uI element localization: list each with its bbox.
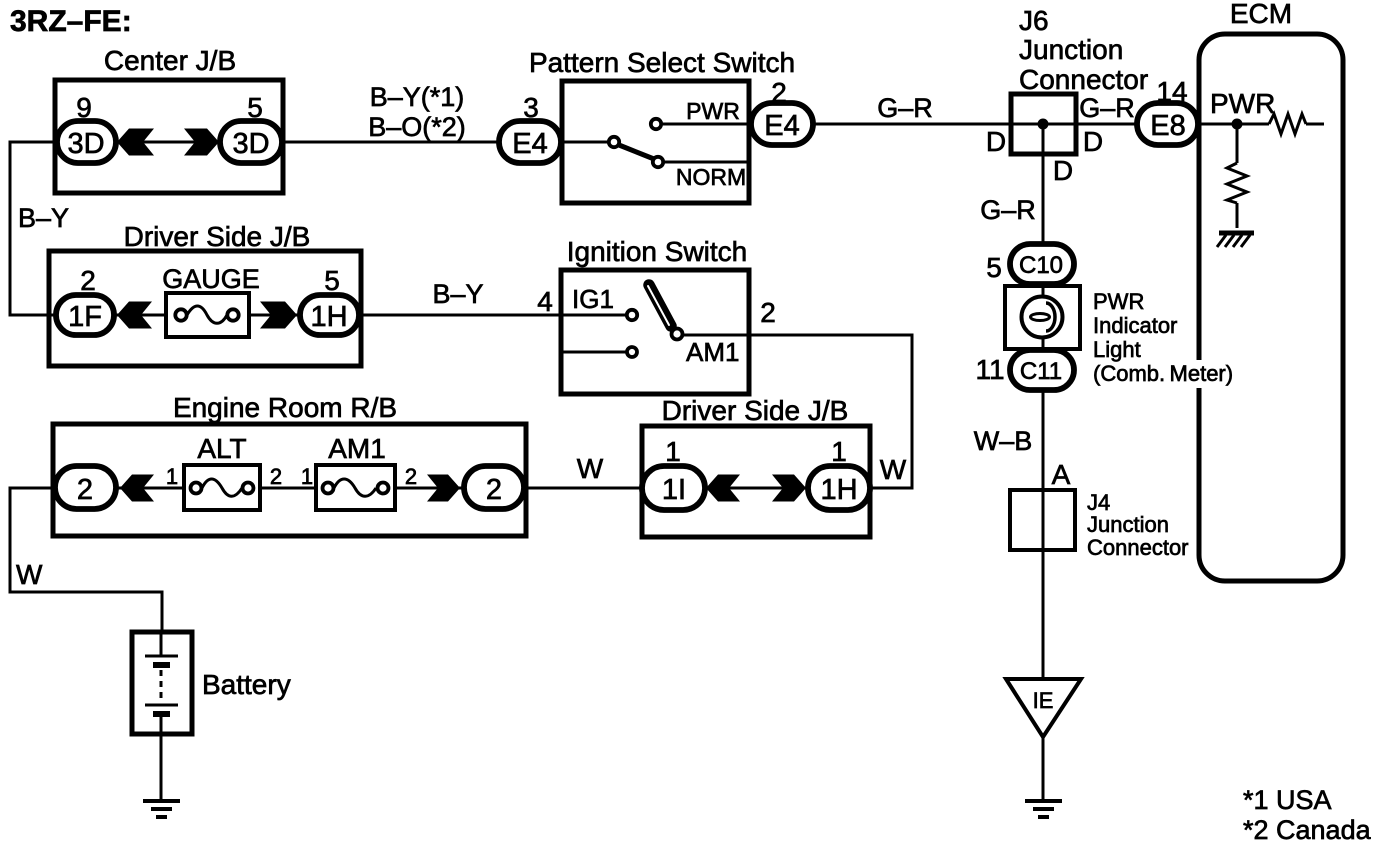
svg-text:1: 1 bbox=[301, 464, 313, 489]
svg-text:J6: J6 bbox=[1019, 5, 1049, 36]
svg-text:A: A bbox=[1052, 459, 1071, 490]
svg-text:9: 9 bbox=[76, 92, 92, 123]
svg-text:W: W bbox=[577, 453, 604, 484]
svg-text:G–R: G–R bbox=[980, 195, 1036, 225]
svg-text:1: 1 bbox=[665, 436, 681, 467]
svg-text:PWR: PWR bbox=[1210, 88, 1275, 119]
svg-text:G–R: G–R bbox=[1079, 93, 1135, 123]
svg-text:B–Y: B–Y bbox=[18, 203, 69, 233]
svg-text:IE: IE bbox=[1033, 688, 1054, 713]
svg-text:NORM: NORM bbox=[676, 164, 746, 190]
svg-text:1F: 1F bbox=[68, 301, 102, 333]
svg-text:Ignition Switch: Ignition Switch bbox=[567, 236, 748, 267]
svg-text:Driver Side J/B: Driver Side J/B bbox=[124, 221, 311, 252]
svg-text:1: 1 bbox=[166, 464, 178, 489]
svg-text:C10: C10 bbox=[1019, 252, 1063, 279]
svg-text:3: 3 bbox=[523, 92, 539, 123]
svg-text:3D: 3D bbox=[232, 128, 269, 160]
svg-text:Engine Room R/B: Engine Room R/B bbox=[173, 392, 397, 423]
svg-text:5: 5 bbox=[247, 92, 263, 123]
svg-text:Connector: Connector bbox=[1087, 535, 1189, 560]
svg-text:2: 2 bbox=[270, 464, 282, 489]
svg-text:G–R: G–R bbox=[877, 93, 933, 123]
svg-text:GAUGE: GAUGE bbox=[162, 264, 260, 294]
svg-text:2: 2 bbox=[77, 474, 93, 506]
svg-text:PWR: PWR bbox=[686, 98, 740, 124]
svg-text:3RZ–FE:: 3RZ–FE: bbox=[10, 5, 132, 38]
svg-text:Junction: Junction bbox=[1019, 34, 1123, 65]
svg-text:Battery: Battery bbox=[202, 669, 291, 700]
svg-text:5: 5 bbox=[986, 252, 1002, 283]
svg-text:ECM: ECM bbox=[1230, 0, 1292, 29]
svg-text:*2 Canada: *2 Canada bbox=[1243, 815, 1372, 845]
svg-text:B–Y(*1): B–Y(*1) bbox=[370, 82, 465, 112]
svg-text:B–O(*2): B–O(*2) bbox=[368, 112, 466, 142]
svg-text:C11: C11 bbox=[1020, 358, 1062, 385]
svg-text:AM1: AM1 bbox=[328, 433, 386, 464]
svg-text:*1 USA: *1 USA bbox=[1243, 785, 1332, 815]
svg-text:IG1: IG1 bbox=[572, 284, 614, 314]
svg-text:1: 1 bbox=[831, 436, 847, 467]
svg-text:1I: 1I bbox=[662, 474, 686, 506]
svg-text:4: 4 bbox=[537, 286, 553, 317]
svg-text:D: D bbox=[1083, 126, 1103, 157]
svg-text:(Comb. Meter): (Comb. Meter) bbox=[1093, 361, 1233, 386]
svg-text:PWR: PWR bbox=[1093, 289, 1144, 314]
svg-text:1H: 1H bbox=[820, 474, 857, 506]
svg-text:2: 2 bbox=[486, 474, 502, 506]
svg-text:Driver Side J/B: Driver Side J/B bbox=[662, 395, 849, 426]
svg-text:AM1: AM1 bbox=[686, 337, 739, 367]
svg-text:2: 2 bbox=[760, 297, 776, 328]
svg-text:2: 2 bbox=[80, 265, 96, 296]
svg-text:5: 5 bbox=[324, 265, 340, 296]
svg-text:E4: E4 bbox=[512, 128, 547, 160]
svg-text:W: W bbox=[16, 559, 43, 590]
svg-text:Indicator: Indicator bbox=[1093, 313, 1177, 338]
svg-text:14: 14 bbox=[1156, 76, 1187, 107]
svg-text:Junction: Junction bbox=[1087, 512, 1169, 537]
svg-text:D: D bbox=[986, 126, 1006, 157]
svg-text:Center J/B: Center J/B bbox=[104, 45, 236, 76]
svg-text:W: W bbox=[880, 454, 907, 485]
svg-text:Pattern Select Switch: Pattern Select Switch bbox=[529, 47, 795, 78]
svg-text:D: D bbox=[1053, 155, 1073, 186]
svg-text:1H: 1H bbox=[310, 301, 347, 333]
svg-text:B–Y: B–Y bbox=[432, 279, 483, 309]
svg-text:11: 11 bbox=[975, 354, 1004, 385]
svg-text:E4: E4 bbox=[764, 110, 799, 142]
svg-text:ALT: ALT bbox=[197, 433, 246, 464]
svg-text:3D: 3D bbox=[67, 128, 104, 160]
svg-text:W–B: W–B bbox=[974, 426, 1033, 456]
svg-text:2: 2 bbox=[771, 77, 787, 108]
svg-text:E8: E8 bbox=[1150, 110, 1185, 142]
svg-text:Light: Light bbox=[1093, 337, 1141, 362]
svg-text:Connector: Connector bbox=[1019, 64, 1148, 95]
svg-text:2: 2 bbox=[405, 464, 417, 489]
